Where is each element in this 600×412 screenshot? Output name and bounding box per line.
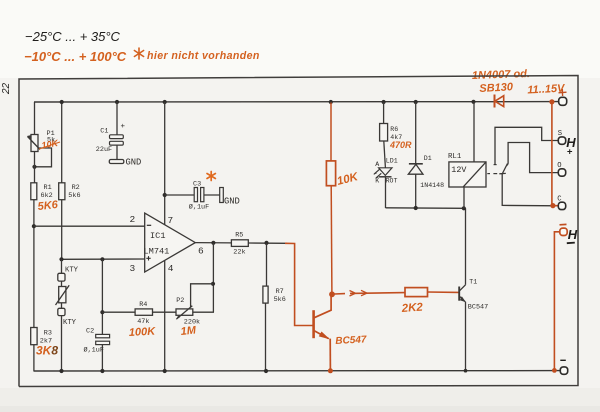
svg-text:1N4007 od.: 1N4007 od. [472,68,530,82]
junction P1 wiper node [32,165,36,169]
svg-text:H: H [568,227,578,242]
svg-text:KTY: KTY [63,319,77,327]
annotation star symbol [134,48,143,59]
svg-text:LM741: LM741 [144,246,170,256]
wire R3 to ground rail [33,345,35,372]
resistor R3 [31,328,37,345]
label minus at bottom terminal [560,359,566,361]
resistor R1 [31,183,37,200]
wire relay contact O path [508,143,558,173]
junction relay coil at top rail [471,100,475,104]
wire R7 top lead [266,243,268,286]
wire P2 right to feedback [193,311,214,313]
relay RL1 coil [449,162,486,187]
junction KTY ground [59,369,63,373]
wire orange supply to C terminal [552,102,558,206]
wire P2 wiper loop [191,284,213,307]
junction T1 emitter ground [464,369,468,373]
junction wiper node [211,282,215,286]
wire op-amp pin4 to ground rail [164,261,166,372]
junction orange at ground rail [552,368,557,373]
svg-text:−10°C ... + 100°C: −10°C ... + 100°C [24,49,127,64]
svg-text:IC1: IC1 [150,231,165,241]
svg-text:GND: GND [126,158,142,168]
svg-text:R5: R5 [235,231,243,239]
svg-text:LD1: LD1 [386,158,398,165]
svg-text:5K6: 5K6 [37,199,59,213]
resistor R4 [135,309,152,315]
svg-text:D1: D1 [424,155,432,162]
svg-text:6: 6 [198,245,204,256]
wire bottom ground rail [34,370,560,372]
annotation orange tick above H terminal [560,223,567,225]
svg-text:3: 3 [130,263,136,274]
terminal S [558,137,565,144]
junction orange emitter at ground rail [328,368,333,373]
svg-text:2: 2 [130,214,136,225]
wire C2 top lead [101,259,103,334]
wire output pin6 [195,242,231,244]
wire feedback vertical [212,243,214,312]
wire R6 top lead [383,102,385,124]
transistor Q2 BC547 orange hand-drawn [314,295,332,371]
annotation P1 new value 10K [39,138,60,151]
svg-text:100K: 100K [129,326,157,339]
svg-text:BC547: BC547 [468,304,488,312]
svg-text:C2: C2 [86,328,94,336]
resistor 2K2 orange [405,288,428,297]
wire relay contact S path [495,127,558,164]
svg-text:RL1: RL1 [448,153,462,161]
terminal O [558,169,565,176]
terminal minus [560,367,567,374]
junction pin4 ground [163,369,167,373]
svg-text:5k6: 5k6 [68,192,80,200]
junction C2 ground [100,369,104,373]
svg-text:ROT: ROT [386,177,398,184]
svg-text:Ø,1uF: Ø,1uF [189,203,209,212]
svg-text:−25°C ... + 35°C: −25°C ... + 35°C [25,29,121,44]
wire T1 emitter to ground rail [465,302,467,371]
svg-text:6k2: 6k2 [41,192,53,200]
junction R4 node [100,310,104,314]
svg-text:KTY: KTY [65,267,79,275]
relay switch pivot tick [499,172,506,174]
junction C2 node [100,257,104,261]
svg-text:C1: C1 [100,128,108,136]
svg-text:+: + [121,123,126,131]
wire top supply rail [34,101,559,103]
wire R5 to R7 node [248,242,287,244]
junction KTY node [59,257,63,261]
svg-text:S: S [558,130,562,138]
wire orange collector node to 2K2 [335,290,406,296]
capacitor C1 [110,135,124,145]
svg-text:470R: 470R [389,140,412,150]
wire R1 to R3 [33,200,35,328]
svg-text:R3: R3 [44,330,52,338]
wire C3 left [165,194,195,196]
wire relay coil top lead [473,102,475,162]
junction orange at C terminal [550,203,555,208]
diode D1 [408,164,423,174]
svg-text:Ø,1uF: Ø,1uF [84,346,104,355]
svg-text:A: A [375,161,379,168]
junction 10K resistor at top rail [329,100,333,104]
junction R7 ground [264,369,268,373]
wire inverting input pin2 [34,225,145,227]
label plus input [146,256,150,260]
junction R2 at top rail [60,100,64,104]
junction feedback node [211,241,215,245]
resistor R7 [263,286,268,303]
svg-text:1N4148: 1N4148 [420,182,444,189]
svg-text:3K8: 3K8 [36,344,58,358]
svg-text:T1: T1 [469,278,477,285]
svg-text:P2: P2 [176,297,184,305]
wire relay coil bottom lead [463,187,465,208]
wire R2 to non-inverting node [61,200,63,260]
svg-text:47k: 47k [137,318,149,326]
junction orange supply at top rail [549,99,554,104]
junction C3 node [163,193,167,197]
terminal plus supply [559,97,567,105]
potentiometer P2 [176,306,193,320]
junction C1 at top rail [115,100,119,104]
svg-text:5k6: 5k6 [274,296,286,304]
wire KTY to ground rail [61,316,63,371]
svg-text:2K2: 2K2 [400,302,423,316]
wire C3 right to ground [204,194,220,196]
wire op-amp pin7 supply [164,102,166,225]
diode SB130 orange hand-drawn [495,95,504,108]
wire non-inverting input [62,258,145,260]
annotation plus mark supply [559,89,567,96]
ground symbol C1 [109,160,124,164]
ground symbol C3 [220,188,224,203]
wire R6 to LED [384,141,386,168]
svg-text:R1: R1 [44,184,52,192]
svg-text:22k: 22k [233,249,245,257]
wire relay actuator dashed [487,173,503,175]
wire P1 to R1 [34,152,36,183]
wire R4 to P2 [153,311,177,313]
svg-text:22uF: 22uF [96,146,112,154]
wire D1 to bottom node [415,174,417,208]
wire C2 to ground rail [101,345,103,371]
schematic border frame [19,76,578,387]
wire relay common to C terminal [502,175,558,206]
svg-text:R2: R2 [72,184,80,192]
wire R4 P2 row [102,311,135,313]
junction relay coil bottom [462,206,466,210]
wire LED D1 relay bottom [386,207,464,210]
resistor R5 [231,240,248,247]
sensor KTY [56,259,70,315]
relay fixed contact S foot [494,164,497,166]
wire P1 top lead [34,102,36,135]
relay fixed contact O foot [507,164,509,166]
annotation star at C3 [207,172,215,181]
svg-text:1M: 1M [180,324,197,338]
resistor R6 [380,124,388,142]
junction inverting input node [32,224,36,228]
wire orange H terminal to ground rail [554,232,559,371]
svg-text:22: 22 [1,82,12,95]
svg-text:7: 7 [168,215,174,226]
wire C1 top lead [116,102,118,135]
svg-text:R4: R4 [139,301,147,309]
svg-text:O: O [557,162,561,170]
junction D1 bottom [414,206,418,210]
resistor 10K orange [326,103,335,293]
wire R7 to ground rail [265,303,267,371]
relay switch arm [502,164,508,175]
terminal C [558,202,565,209]
junction R6 at top rail [382,100,386,104]
potentiometer P1 [27,135,52,167]
svg-text:GND: GND [224,197,240,207]
resistor R2 [59,183,65,200]
svg-text:R6: R6 [390,126,398,133]
svg-text:4: 4 [168,263,174,274]
svg-text:SB130: SB130 [479,81,514,95]
capacitor C2 [96,334,110,344]
LED LD1 [373,168,392,179]
annotation minus below H terminal [567,242,575,245]
wire LED to bottom node [385,177,387,208]
svg-text:hier nicht vorhanden: hier nicht vorhanden [147,50,260,62]
wire T1 collector to relay coil [465,208,467,284]
wire R2 top lead [61,102,63,183]
transistor T1 BC547 [459,285,466,303]
svg-text:12V: 12V [451,165,466,175]
junction pin7 at top rail [163,100,167,104]
svg-text:BC547: BC547 [335,334,367,347]
svg-text:K: K [375,177,379,184]
junction orange collector node [329,291,335,297]
junction R7 node [264,241,268,245]
wire orange from output to base [285,243,313,325]
terminal H [560,228,567,235]
wire D1 top lead [415,102,417,164]
svg-text:C: C [557,196,562,204]
op-amp U1 LM741 [145,213,196,272]
wire C1 to ground symbol [116,145,118,159]
junction D1 at top rail [414,100,418,104]
svg-text:+: + [567,147,573,158]
label minus input [147,224,151,226]
svg-text:11..15V: 11..15V [527,82,566,96]
capacitor C3 [194,188,204,202]
wire 2K2 to T1 base [428,291,459,293]
